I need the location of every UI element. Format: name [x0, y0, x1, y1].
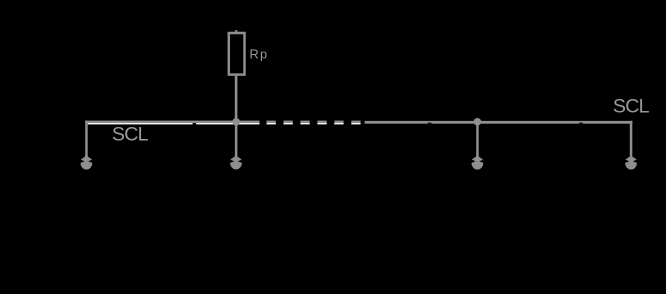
- wire vertical drop 4 (right corner): [630, 121, 633, 156]
- wire vertical drop 2: [235, 122, 238, 156]
- wire vertical drop 1: [85, 121, 88, 156]
- joint nick left: [193, 123, 197, 125]
- terminal arrow 3: [472, 155, 484, 170]
- junction dot A: [232, 118, 240, 126]
- wire bus right segment: [365, 121, 633, 124]
- wire stub above resistor (to VDD, cropped): [235, 30, 238, 32]
- joint nick middle: [428, 123, 432, 124]
- resistor Rp: [229, 33, 245, 75]
- wire bus left segment: [85, 121, 259, 125]
- wire vertical drop 3: [476, 122, 479, 156]
- terminal arrow 2: [230, 155, 242, 169]
- svg-text:Rp: Rp: [250, 47, 269, 62]
- wire bus dashed segment: [267, 121, 361, 125]
- svg-text:SCL: SCL: [112, 123, 149, 145]
- joint nick right: [579, 123, 583, 124]
- junction dot B: [474, 118, 482, 126]
- terminal arrow 4: [625, 156, 637, 170]
- wire resistor to bus: [235, 76, 238, 122]
- svg-text:SCL: SCL: [613, 96, 650, 118]
- terminal arrow 1: [81, 155, 93, 170]
